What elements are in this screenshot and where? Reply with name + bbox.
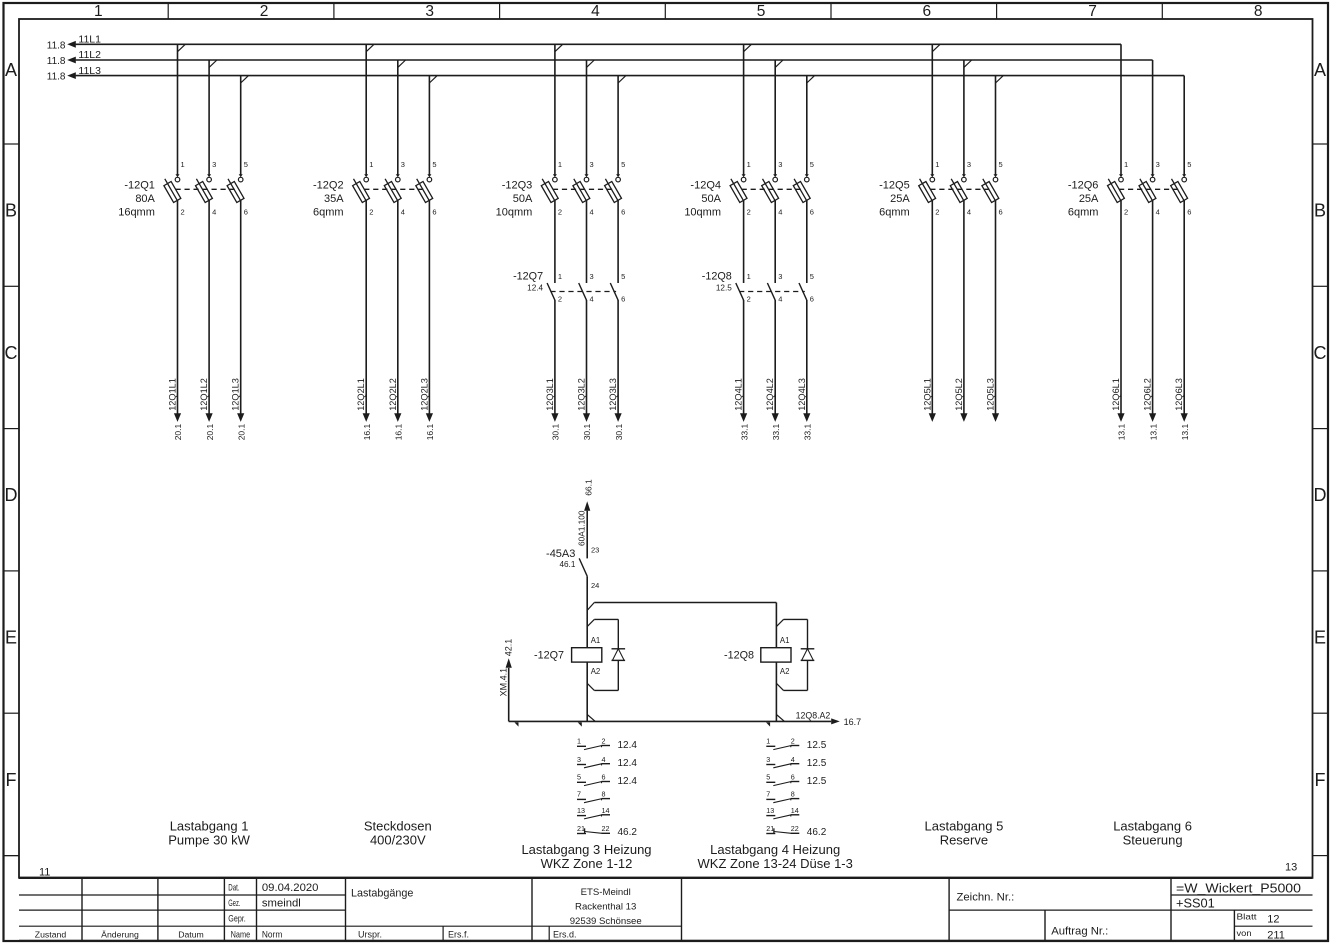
wire 12Q6L3 bbox=[1174, 200, 1190, 441]
wire 12Q6L1 bbox=[1111, 200, 1127, 441]
wire 12Q3L3 bbox=[608, 200, 624, 441]
svg-text:+SS01: +SS01 bbox=[1176, 896, 1215, 911]
svg-text:22: 22 bbox=[602, 824, 610, 833]
svg-text:F: F bbox=[6, 770, 17, 790]
circuit breaker -12Q4 bbox=[684, 44, 814, 218]
wire A2 branch bbox=[587, 662, 618, 721]
svg-text:12.4: 12.4 bbox=[527, 284, 543, 293]
svg-text:12Q5L1: 12Q5L1 bbox=[922, 378, 932, 411]
svg-text:3: 3 bbox=[425, 3, 434, 20]
svg-text:D: D bbox=[5, 485, 18, 505]
wire 12Q5L3 bbox=[986, 200, 1000, 422]
wire 12Q4L1 bbox=[734, 200, 750, 441]
contact mirror of -12Q7 bbox=[577, 737, 637, 839]
svg-text:16.7: 16.7 bbox=[844, 717, 862, 727]
svg-text:4: 4 bbox=[1156, 207, 1160, 216]
svg-text:12Q2L3: 12Q2L3 bbox=[419, 378, 429, 411]
svg-text:-12Q7: -12Q7 bbox=[534, 649, 564, 661]
svg-text:12.5: 12.5 bbox=[807, 740, 827, 751]
svg-text:-12Q7: -12Q7 bbox=[513, 270, 543, 282]
svg-text:Zustand: Zustand bbox=[35, 929, 67, 939]
svg-text:11.8: 11.8 bbox=[47, 56, 66, 67]
node taps on 11L1 bbox=[178, 44, 941, 51]
svg-text:30.1: 30.1 bbox=[582, 423, 592, 440]
svg-text:C: C bbox=[1314, 343, 1327, 363]
svg-text:-12Q3: -12Q3 bbox=[502, 180, 533, 192]
svg-text:50A: 50A bbox=[513, 193, 533, 205]
svg-text:25A: 25A bbox=[890, 193, 910, 205]
svg-text:20.1: 20.1 bbox=[173, 423, 183, 440]
svg-text:13.1: 13.1 bbox=[1180, 423, 1190, 440]
svg-text:12Q3L3: 12Q3L3 bbox=[608, 378, 618, 411]
svg-text:6qmm: 6qmm bbox=[1068, 207, 1099, 219]
svg-text:5: 5 bbox=[577, 773, 581, 782]
svg-text:10qmm: 10qmm bbox=[684, 207, 721, 219]
svg-text:=W_Wickert_P5000: =W_Wickert_P5000 bbox=[1176, 881, 1301, 896]
wire 12Q3L1 bbox=[545, 200, 561, 441]
svg-text:Name: Name bbox=[231, 929, 251, 940]
function text Lastabgang 6 bbox=[1113, 819, 1192, 848]
svg-text:5: 5 bbox=[621, 272, 625, 281]
svg-text:1: 1 bbox=[935, 160, 939, 169]
svg-text:-12Q1: -12Q1 bbox=[124, 180, 155, 192]
svg-text:400/230V: 400/230V bbox=[370, 832, 426, 847]
svg-text:20.1: 20.1 bbox=[205, 423, 215, 440]
svg-text:A1: A1 bbox=[780, 636, 790, 645]
svg-text:12Q2L1: 12Q2L1 bbox=[356, 378, 366, 411]
svg-text:A2: A2 bbox=[591, 667, 601, 676]
wire 12Q4L3 bbox=[797, 200, 813, 441]
circuit breaker -12Q2 bbox=[313, 44, 437, 218]
wire 12Q1L2 bbox=[199, 200, 215, 441]
wire 12Q2L2 bbox=[388, 200, 404, 441]
NO contact -45A3 bbox=[546, 545, 599, 589]
svg-text:3: 3 bbox=[590, 272, 594, 281]
svg-text:Lastabgang 1: Lastabgang 1 bbox=[170, 819, 249, 834]
svg-text:E: E bbox=[1314, 628, 1326, 648]
svg-text:6: 6 bbox=[922, 3, 931, 20]
svg-text:Lastabgang 6: Lastabgang 6 bbox=[1113, 819, 1192, 834]
svg-text:12Q6L2: 12Q6L2 bbox=[1143, 378, 1153, 411]
wire rail to -12Q8 bbox=[587, 603, 776, 648]
function text Lastabgang 4 Heizung bbox=[698, 842, 853, 871]
svg-text:Steckdosen: Steckdosen bbox=[364, 819, 432, 834]
svg-text:33.1: 33.1 bbox=[771, 423, 781, 440]
svg-text:42.1: 42.1 bbox=[504, 639, 514, 657]
svg-text:6: 6 bbox=[244, 207, 248, 216]
svg-text:3: 3 bbox=[1156, 160, 1160, 169]
svg-text:3: 3 bbox=[778, 272, 782, 281]
svg-text:A1: A1 bbox=[591, 636, 601, 645]
bus wire 11L2 bbox=[47, 49, 1153, 67]
svg-text:6: 6 bbox=[602, 773, 606, 782]
svg-text:11.8: 11.8 bbox=[47, 72, 66, 83]
svg-text:80A: 80A bbox=[135, 193, 155, 205]
wire 12Q2L1 bbox=[356, 200, 372, 441]
svg-text:1: 1 bbox=[558, 160, 562, 169]
svg-text:3: 3 bbox=[577, 755, 581, 764]
svg-text:30.1: 30.1 bbox=[614, 423, 624, 440]
svg-text:6: 6 bbox=[432, 207, 436, 216]
svg-text:1: 1 bbox=[181, 160, 185, 169]
svg-text:12.4: 12.4 bbox=[618, 740, 638, 751]
coil -12Q7 bbox=[534, 636, 602, 676]
contactor main contacts -12Q7 bbox=[513, 270, 625, 303]
svg-text:6: 6 bbox=[621, 207, 625, 216]
svg-text:von: von bbox=[1237, 928, 1252, 938]
svg-text:4: 4 bbox=[791, 755, 795, 764]
svg-text:4: 4 bbox=[401, 207, 405, 216]
svg-text:2: 2 bbox=[369, 207, 373, 216]
svg-text:Lastabgang 5: Lastabgang 5 bbox=[925, 819, 1004, 834]
svg-text:12Q8.A2: 12Q8.A2 bbox=[796, 710, 831, 720]
svg-text:12Q2L2: 12Q2L2 bbox=[388, 378, 398, 411]
svg-text:Blatt: Blatt bbox=[1237, 912, 1258, 922]
wire 12Q1L1 bbox=[168, 200, 184, 441]
svg-text:1: 1 bbox=[747, 272, 751, 281]
svg-text:10qmm: 10qmm bbox=[496, 207, 533, 219]
svg-text:2: 2 bbox=[1124, 207, 1128, 216]
circuit breaker -12Q6 bbox=[1068, 44, 1192, 218]
column header band bbox=[94, 3, 1263, 20]
svg-text:13: 13 bbox=[577, 806, 585, 815]
svg-text:4: 4 bbox=[590, 207, 594, 216]
wire 12Q2L3 bbox=[419, 200, 435, 441]
svg-text:8: 8 bbox=[1254, 3, 1263, 20]
svg-text:B: B bbox=[1314, 201, 1326, 221]
svg-text:Gepr.: Gepr. bbox=[228, 914, 246, 925]
wire 12Q1L3 bbox=[231, 200, 247, 441]
title block bbox=[4, 856, 1329, 941]
svg-text:C: C bbox=[5, 343, 18, 363]
svg-text:Urspr.: Urspr. bbox=[358, 929, 382, 939]
svg-text:3: 3 bbox=[778, 160, 782, 169]
svg-text:23: 23 bbox=[591, 545, 599, 554]
svg-text:Rackenthal 13: Rackenthal 13 bbox=[575, 902, 636, 913]
svg-text:14: 14 bbox=[602, 806, 610, 815]
svg-text:WKZ Zone 1-12: WKZ Zone 1-12 bbox=[541, 856, 633, 871]
svg-text:09.04.2020: 09.04.2020 bbox=[262, 882, 319, 894]
svg-text:Norm: Norm bbox=[262, 929, 282, 940]
suppressor diode of -12Q7 bbox=[612, 649, 626, 691]
wire ref 12Q8.A2 to 16.7 bbox=[796, 710, 862, 726]
svg-text:4: 4 bbox=[778, 207, 782, 216]
svg-text:12Q3L1: 12Q3L1 bbox=[545, 378, 555, 411]
svg-text:3: 3 bbox=[401, 160, 405, 169]
svg-text:6: 6 bbox=[1187, 207, 1191, 216]
suppressor diode of -12Q8 bbox=[801, 649, 815, 691]
svg-text:46.1: 46.1 bbox=[559, 560, 575, 569]
svg-text:XM.4.1: XM.4.1 bbox=[499, 668, 509, 697]
svg-text:16qmm: 16qmm bbox=[118, 207, 155, 219]
svg-text:Gez.: Gez. bbox=[228, 898, 240, 909]
wire A1 diode branch bbox=[776, 619, 807, 648]
circuit breaker -12Q5 bbox=[879, 44, 1003, 218]
svg-text:Zeichn. Nr.:: Zeichn. Nr.: bbox=[957, 892, 1015, 904]
svg-text:13.1: 13.1 bbox=[1117, 423, 1127, 440]
svg-text:-12Q8: -12Q8 bbox=[724, 649, 754, 661]
svg-text:5: 5 bbox=[244, 160, 248, 169]
svg-text:E: E bbox=[5, 628, 17, 648]
svg-text:12Q4L2: 12Q4L2 bbox=[765, 378, 775, 411]
contact mirror of -12Q8 bbox=[766, 737, 826, 839]
svg-text:12Q4L1: 12Q4L1 bbox=[734, 378, 744, 411]
svg-text:20.1: 20.1 bbox=[236, 423, 246, 440]
svg-text:2: 2 bbox=[181, 207, 185, 216]
svg-text:11L1: 11L1 bbox=[78, 34, 101, 46]
function text Lastabgang 3 Heizung bbox=[521, 842, 651, 871]
svg-text:Steuerung: Steuerung bbox=[1123, 832, 1183, 847]
wire 12Q5L2 bbox=[954, 200, 968, 422]
svg-text:33.1: 33.1 bbox=[803, 423, 813, 440]
svg-text:3: 3 bbox=[967, 160, 971, 169]
node taps on 11L3 bbox=[241, 76, 1004, 83]
svg-text:2: 2 bbox=[602, 737, 606, 746]
circuit breaker -12Q1 bbox=[118, 44, 248, 218]
wire 45A3 to coil A1 bbox=[586, 576, 588, 648]
svg-text:22: 22 bbox=[791, 824, 799, 833]
svg-text:4: 4 bbox=[967, 207, 971, 216]
svg-text:13: 13 bbox=[1285, 862, 1297, 874]
svg-text:12.5: 12.5 bbox=[807, 758, 827, 769]
circuit breaker -12Q3 bbox=[496, 44, 626, 218]
svg-text:6: 6 bbox=[791, 773, 795, 782]
svg-text:5: 5 bbox=[1187, 160, 1191, 169]
wire 12Q3L2 bbox=[577, 200, 593, 441]
svg-text:12.5: 12.5 bbox=[716, 284, 732, 293]
contactor main contacts -12Q8 bbox=[702, 270, 814, 303]
node taps on 11L2 bbox=[209, 60, 972, 67]
svg-text:B: B bbox=[5, 201, 17, 221]
svg-text:Lastabgänge: Lastabgänge bbox=[351, 887, 413, 899]
function text Lastabgang 5 bbox=[925, 819, 1004, 848]
svg-text:Ers.d.: Ers.d. bbox=[553, 929, 577, 939]
svg-text:30.1: 30.1 bbox=[551, 423, 561, 440]
svg-text:Datum: Datum bbox=[178, 929, 204, 939]
svg-text:33.1: 33.1 bbox=[739, 423, 749, 440]
svg-text:4: 4 bbox=[212, 207, 216, 216]
function text Steckdosen bbox=[364, 819, 432, 848]
svg-text:6qmm: 6qmm bbox=[313, 207, 344, 219]
svg-text:Dat.: Dat. bbox=[228, 883, 239, 894]
svg-text:Lastabgang 4 Heizung: Lastabgang 4 Heizung bbox=[710, 842, 840, 857]
svg-text:Auftrag Nr.:: Auftrag Nr.: bbox=[1051, 926, 1108, 938]
svg-text:7: 7 bbox=[577, 790, 581, 799]
svg-text:8: 8 bbox=[791, 790, 795, 799]
svg-text:21: 21 bbox=[577, 824, 585, 833]
svg-text:46.2: 46.2 bbox=[618, 827, 638, 838]
svg-text:12Q5L3: 12Q5L3 bbox=[986, 378, 996, 411]
svg-text:-12Q4: -12Q4 bbox=[690, 180, 721, 192]
svg-text:Änderung: Änderung bbox=[101, 929, 139, 939]
svg-text:3: 3 bbox=[590, 160, 594, 169]
svg-text:13: 13 bbox=[766, 806, 774, 815]
svg-text:12.4: 12.4 bbox=[618, 758, 638, 769]
terminal arrow XM.4.1 bbox=[499, 639, 514, 722]
svg-text:11L3: 11L3 bbox=[78, 65, 101, 77]
svg-text:50A: 50A bbox=[701, 193, 721, 205]
svg-text:66.1: 66.1 bbox=[584, 479, 594, 496]
svg-text:-12Q8: -12Q8 bbox=[702, 270, 732, 282]
title block texts bbox=[35, 881, 1301, 942]
svg-text:1: 1 bbox=[558, 272, 562, 281]
svg-text:11.8: 11.8 bbox=[47, 40, 66, 51]
svg-text:Lastabgang 3 Heizung: Lastabgang 3 Heizung bbox=[521, 842, 651, 857]
svg-text:1: 1 bbox=[766, 737, 770, 746]
svg-text:16.1: 16.1 bbox=[394, 423, 404, 440]
svg-text:8: 8 bbox=[602, 790, 606, 799]
svg-text:46.2: 46.2 bbox=[807, 827, 827, 838]
svg-text:2: 2 bbox=[747, 294, 751, 303]
svg-text:35A: 35A bbox=[324, 193, 344, 205]
svg-text:3: 3 bbox=[212, 160, 216, 169]
svg-text:-12Q5: -12Q5 bbox=[879, 180, 910, 192]
svg-text:2: 2 bbox=[791, 737, 795, 746]
svg-text:6qmm: 6qmm bbox=[879, 207, 910, 219]
svg-text:2: 2 bbox=[558, 294, 562, 303]
function text Lastabgang 1 bbox=[168, 819, 250, 848]
wire 12Q5L1 bbox=[922, 200, 936, 422]
wire 12Q6L2 bbox=[1143, 200, 1159, 441]
svg-text:5: 5 bbox=[432, 160, 436, 169]
svg-text:5: 5 bbox=[810, 272, 814, 281]
svg-text:5: 5 bbox=[621, 160, 625, 169]
svg-text:2: 2 bbox=[260, 3, 269, 20]
svg-text:12Q4L3: 12Q4L3 bbox=[797, 378, 807, 411]
svg-text:12: 12 bbox=[1267, 913, 1279, 925]
svg-text:12Q1L3: 12Q1L3 bbox=[231, 378, 241, 411]
svg-text:12Q5L2: 12Q5L2 bbox=[954, 378, 964, 411]
svg-text:12.5: 12.5 bbox=[807, 776, 827, 787]
svg-text:7: 7 bbox=[766, 790, 770, 799]
bottom wire A2 rail bbox=[509, 715, 832, 727]
svg-text:5: 5 bbox=[766, 773, 770, 782]
svg-text:1: 1 bbox=[94, 3, 103, 20]
svg-text:4: 4 bbox=[590, 294, 594, 303]
svg-text:5: 5 bbox=[757, 3, 766, 20]
svg-text:21: 21 bbox=[766, 824, 774, 833]
svg-text:Reserve: Reserve bbox=[940, 832, 988, 847]
svg-text:12.4: 12.4 bbox=[618, 776, 638, 787]
coil -12Q8 bbox=[724, 636, 791, 676]
svg-text:ETS-Meindl: ETS-Meindl bbox=[581, 887, 631, 898]
svg-text:A2: A2 bbox=[780, 667, 790, 676]
svg-text:A: A bbox=[5, 60, 17, 80]
svg-text:5: 5 bbox=[810, 160, 814, 169]
source arrow to 66.1 bbox=[577, 479, 594, 558]
wire 12Q4L2 bbox=[765, 200, 781, 441]
svg-text:-12Q6: -12Q6 bbox=[1068, 180, 1099, 192]
svg-text:D: D bbox=[1314, 485, 1327, 505]
svg-text:2: 2 bbox=[747, 207, 751, 216]
svg-text:7: 7 bbox=[1088, 3, 1097, 20]
wire A2 branch bbox=[776, 662, 807, 721]
svg-text:92539 Schönsee: 92539 Schönsee bbox=[570, 916, 642, 927]
svg-text:A: A bbox=[1314, 60, 1326, 80]
svg-text:-45A3: -45A3 bbox=[546, 548, 575, 560]
svg-text:12Q3L2: 12Q3L2 bbox=[577, 378, 587, 411]
svg-text:smeindl: smeindl bbox=[262, 898, 301, 910]
svg-text:12Q6L1: 12Q6L1 bbox=[1111, 378, 1121, 411]
svg-text:211: 211 bbox=[1267, 930, 1285, 942]
svg-text:1: 1 bbox=[577, 737, 581, 746]
svg-text:16.1: 16.1 bbox=[425, 423, 435, 440]
svg-text:1: 1 bbox=[747, 160, 751, 169]
svg-text:F: F bbox=[1315, 770, 1326, 790]
svg-text:6: 6 bbox=[810, 294, 814, 303]
svg-text:11L2: 11L2 bbox=[78, 49, 101, 61]
svg-text:12Q1L1: 12Q1L1 bbox=[168, 378, 178, 411]
bus wire 11L1 bbox=[47, 34, 1121, 52]
svg-text:Pumpe 30 kW: Pumpe 30 kW bbox=[168, 832, 250, 847]
svg-text:2: 2 bbox=[558, 207, 562, 216]
svg-text:4: 4 bbox=[591, 3, 600, 20]
svg-text:12Q1L2: 12Q1L2 bbox=[199, 378, 209, 411]
svg-text:6: 6 bbox=[621, 294, 625, 303]
svg-text:1: 1 bbox=[369, 160, 373, 169]
wire A1 diode branch bbox=[587, 619, 618, 648]
svg-text:4: 4 bbox=[778, 294, 782, 303]
svg-text:12Q6L3: 12Q6L3 bbox=[1174, 378, 1184, 411]
svg-text:3: 3 bbox=[766, 755, 770, 764]
svg-text:14: 14 bbox=[791, 806, 799, 815]
svg-text:13.1: 13.1 bbox=[1148, 423, 1158, 440]
svg-text:WKZ Zone 13-24 Düse 1-3: WKZ Zone 13-24 Düse 1-3 bbox=[698, 856, 853, 871]
svg-text:Ers.f.: Ers.f. bbox=[448, 929, 469, 939]
svg-text:4: 4 bbox=[602, 755, 606, 764]
svg-text:6: 6 bbox=[810, 207, 814, 216]
svg-text:16.1: 16.1 bbox=[362, 423, 372, 440]
svg-text:-12Q2: -12Q2 bbox=[313, 180, 344, 192]
bus wire 11L3 bbox=[47, 65, 1184, 83]
svg-text:6: 6 bbox=[999, 207, 1003, 216]
svg-text:60A1.100: 60A1.100 bbox=[577, 510, 587, 546]
svg-text:1: 1 bbox=[1124, 160, 1128, 169]
svg-text:25A: 25A bbox=[1079, 193, 1099, 205]
svg-text:24: 24 bbox=[591, 581, 599, 590]
svg-text:2: 2 bbox=[935, 207, 939, 216]
svg-text:5: 5 bbox=[999, 160, 1003, 169]
